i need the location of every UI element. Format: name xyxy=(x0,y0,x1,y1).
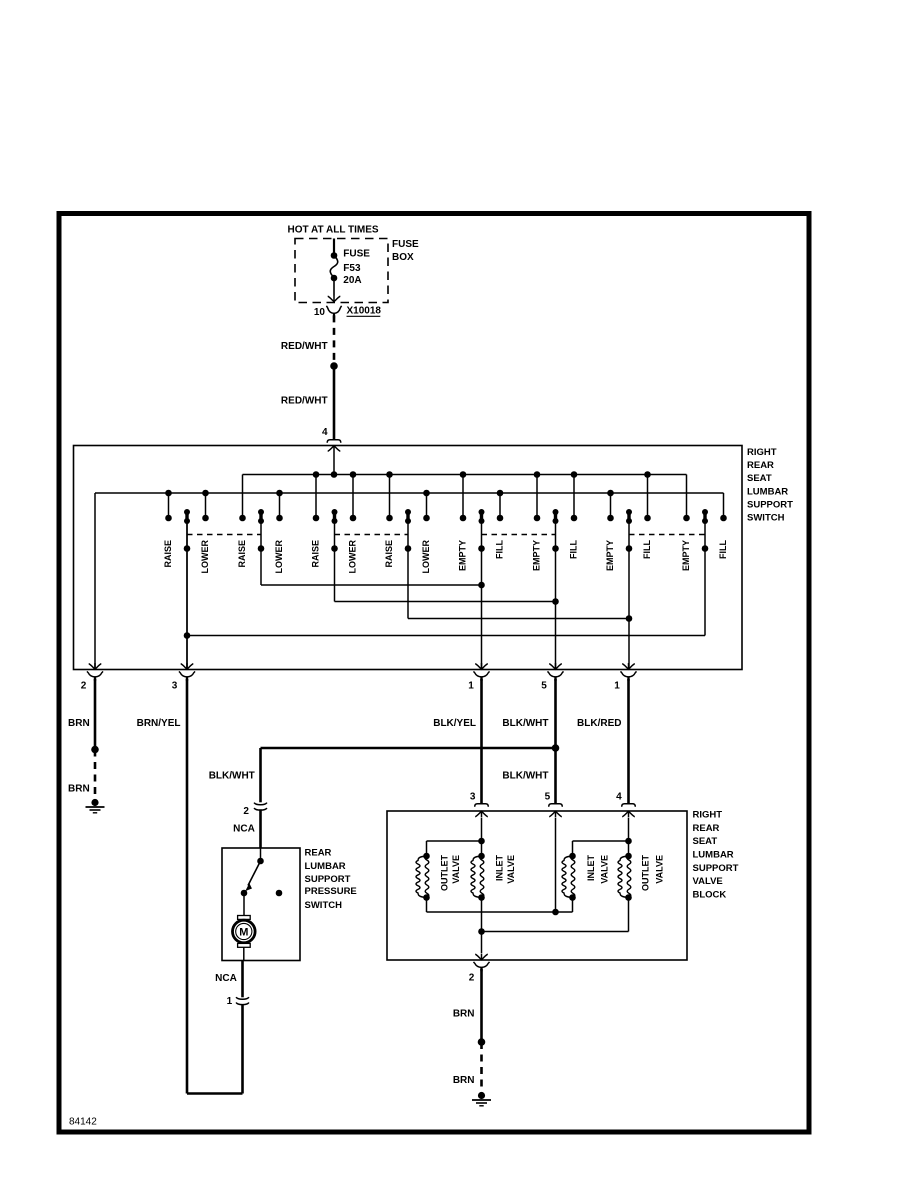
svg-text:PRESSURE: PRESSURE xyxy=(305,886,357,897)
fuse F53 20A xyxy=(330,248,370,295)
svg-text:FILL: FILL xyxy=(569,540,579,559)
switch contact FILL (group 6R) xyxy=(569,471,579,559)
svg-text:EMPTY: EMPTY xyxy=(532,540,542,571)
svg-text:2: 2 xyxy=(243,806,249,817)
wire BRN dashed to ground xyxy=(68,750,95,800)
switch pole 1 xyxy=(184,509,191,670)
switch exit pin 1 xyxy=(468,663,489,692)
svg-text:2: 2 xyxy=(81,681,87,692)
svg-text:SUPPORT: SUPPORT xyxy=(693,863,739,874)
bus to pin 2 (lower) xyxy=(95,493,724,670)
pole 1 exit line with junction xyxy=(184,521,191,670)
svg-text:FILL: FILL xyxy=(642,540,652,559)
outer border frame xyxy=(59,214,809,1133)
switch pole 7 xyxy=(626,509,633,670)
svg-text:BRN: BRN xyxy=(68,718,90,729)
switch contact LOWER (group 3R) xyxy=(348,471,358,573)
svg-text:1: 1 xyxy=(227,996,233,1007)
wire RED/WHT (dashed, unnamed splice above) xyxy=(281,315,334,364)
svg-text:RAISE: RAISE xyxy=(163,540,173,568)
svg-text:RAISE: RAISE xyxy=(384,540,394,568)
link pin4 to inlet valve 3 top xyxy=(573,841,629,856)
switch contact FILL (group 7R) xyxy=(642,471,652,559)
splice to pressure switch xyxy=(552,744,560,752)
pressure switch contact & blade xyxy=(241,848,264,896)
svg-text:84142: 84142 xyxy=(69,1117,97,1128)
fuse box (dashed) xyxy=(295,239,419,303)
inlet valve coil 2 xyxy=(471,853,516,901)
switch pole 6 xyxy=(552,509,559,670)
switch contact LOWER (group 2R) xyxy=(274,490,284,574)
svg-text:BLOCK: BLOCK xyxy=(693,889,727,900)
switch pole 2 xyxy=(258,509,482,585)
outlet valve coil 4 xyxy=(618,853,664,901)
switch contact RAISE (group 2L) xyxy=(237,475,247,568)
switch pole 5 xyxy=(478,509,485,670)
mechanical linkage (dashed) xyxy=(629,534,705,536)
wire BRN from pin 2 xyxy=(68,679,95,750)
svg-text:VALVE: VALVE xyxy=(693,876,723,887)
svg-text:SWITCH: SWITCH xyxy=(305,900,343,911)
wire BLK/WHT branch to pressure switch xyxy=(209,748,556,802)
valve pin 5 entry arrow + wire xyxy=(549,811,562,915)
svg-text:VALVE: VALVE xyxy=(654,855,664,884)
svg-text:BRN: BRN xyxy=(68,783,90,794)
svg-text:INLET: INLET xyxy=(586,854,596,881)
svg-text:SUPPORT: SUPPORT xyxy=(305,874,351,885)
pressure switch pin 2 connector NCA xyxy=(233,803,267,848)
motor M xyxy=(233,893,256,961)
svg-text:BLK/WHT: BLK/WHT xyxy=(502,771,548,782)
valve pin 3 connector xyxy=(470,792,488,807)
wire BLK/WHT xyxy=(502,679,555,748)
common return inside valve block xyxy=(478,898,628,935)
svg-text:HOT AT ALL TIMES: HOT AT ALL TIMES xyxy=(288,225,379,236)
switch pole 3 xyxy=(331,509,555,602)
svg-text:EMPTY: EMPTY xyxy=(458,540,468,571)
label HOT AT ALL TIMES xyxy=(288,225,379,236)
svg-text:LUMBAR: LUMBAR xyxy=(305,861,346,872)
svg-text:RAISE: RAISE xyxy=(237,540,247,568)
svg-text:OUTLET: OUTLET xyxy=(439,855,449,891)
svg-text:10: 10 xyxy=(314,307,326,318)
switch contact EMPTY (group 5L) xyxy=(458,471,468,571)
svg-text:BRN: BRN xyxy=(453,1075,475,1086)
svg-text:VALVE: VALVE xyxy=(451,855,461,884)
wire BRN dashed to ground xyxy=(453,1042,482,1092)
valve pin 5 connector xyxy=(545,792,563,807)
svg-text:RED/WHT: RED/WHT xyxy=(281,396,328,407)
mechanical linkage (dashed) xyxy=(335,534,409,536)
svg-text:4: 4 xyxy=(616,792,622,803)
rear lumbar support pressure switch box xyxy=(222,848,357,961)
wire BLK/WHT lower xyxy=(502,748,555,803)
switch contact EMPTY (group 8L) xyxy=(681,475,691,572)
svg-text:BRN: BRN xyxy=(453,1008,475,1019)
switch contact RAISE (group 4L) xyxy=(384,471,394,567)
valve pin 3 entry arrow + wire xyxy=(475,811,488,856)
svg-text:BLK/YEL: BLK/YEL xyxy=(433,718,476,729)
svg-text:BLK/WHT: BLK/WHT xyxy=(209,771,255,782)
svg-text:INLET: INLET xyxy=(494,854,504,881)
svg-text:BRN/YEL: BRN/YEL xyxy=(137,718,181,729)
svg-text:FILL: FILL xyxy=(495,540,505,559)
right rear seat lumbar support valve block box xyxy=(387,810,739,960)
switch contact RAISE (group 3L) xyxy=(311,471,321,567)
branch to outlet valve 1 xyxy=(427,841,482,856)
valve pin 4 entry arrow + wire xyxy=(622,811,635,856)
svg-text:EMPTY: EMPTY xyxy=(605,540,615,571)
wire BRN/YEL pin 3 to pressure switch pin 1 xyxy=(137,679,243,1094)
svg-text:BLK/RED: BLK/RED xyxy=(577,718,621,729)
switch contact LOWER (group 4R) xyxy=(421,490,431,574)
splice node xyxy=(91,746,99,754)
svg-text:RIGHT: RIGHT xyxy=(693,810,723,821)
pressure switch NC contact xyxy=(276,890,283,897)
ground (left) xyxy=(86,799,105,813)
mechanical linkage (dashed) xyxy=(187,534,261,536)
wire BRN from valve block xyxy=(453,969,482,1042)
svg-text:REAR: REAR xyxy=(747,460,774,471)
ground (bottom) xyxy=(472,1092,491,1106)
svg-text:3: 3 xyxy=(172,681,178,692)
svg-text:SUPPORT: SUPPORT xyxy=(747,500,793,511)
switch exit pin 3 xyxy=(172,663,195,692)
splice node xyxy=(330,362,338,370)
wire RED/WHT (solid) xyxy=(281,366,334,440)
svg-text:BLK/WHT: BLK/WHT xyxy=(502,718,548,729)
svg-text:VALVE: VALVE xyxy=(506,855,516,884)
diagram number 84142 xyxy=(69,1117,97,1128)
switch exit pin 5 xyxy=(541,663,563,692)
svg-text:3: 3 xyxy=(470,792,476,803)
outlet valve coil 1 xyxy=(416,853,461,901)
svg-text:LUMBAR: LUMBAR xyxy=(693,850,734,861)
svg-text:SEAT: SEAT xyxy=(747,473,772,484)
svg-text:1: 1 xyxy=(614,681,620,692)
pressure switch pin 1 connector NCA xyxy=(215,961,249,1008)
svg-text:NCA: NCA xyxy=(233,824,255,835)
svg-text:LOWER: LOWER xyxy=(421,540,431,574)
svg-text:M: M xyxy=(239,927,248,939)
svg-text:1: 1 xyxy=(468,681,474,692)
svg-text:REAR: REAR xyxy=(305,848,332,859)
wire BLK/YEL xyxy=(433,679,481,803)
connector X10018 pin 10 xyxy=(314,306,382,319)
svg-text:SWITCH: SWITCH xyxy=(747,513,785,524)
svg-text:F53: F53 xyxy=(343,263,361,274)
svg-text:BOX: BOX xyxy=(392,252,414,263)
inlet valve coil 3 xyxy=(562,853,609,901)
svg-text:RIGHT: RIGHT xyxy=(747,447,777,458)
svg-text:EMPTY: EMPTY xyxy=(681,540,691,571)
switch pole 8 xyxy=(187,509,708,636)
svg-text:4: 4 xyxy=(322,427,328,438)
svg-text:OUTLET: OUTLET xyxy=(641,855,651,891)
mechanical linkage (dashed) xyxy=(482,534,556,536)
svg-text:RED/WHT: RED/WHT xyxy=(281,341,328,352)
right rear seat lumbar support switch box xyxy=(74,446,794,670)
splice node xyxy=(478,1038,486,1046)
svg-text:VALVE: VALVE xyxy=(599,855,609,884)
svg-text:X10018: X10018 xyxy=(347,306,382,317)
svg-text:LOWER: LOWER xyxy=(274,540,284,574)
valve pin 2 exit xyxy=(469,932,490,984)
wire BLK/RED xyxy=(577,679,628,803)
pin 4 entry arrow xyxy=(328,446,341,478)
outlet1/inlet3 bottom link xyxy=(427,898,573,913)
svg-text:LOWER: LOWER xyxy=(200,540,210,574)
svg-text:5: 5 xyxy=(541,681,547,692)
switch exit pin 1 xyxy=(614,663,636,692)
svg-text:SEAT: SEAT xyxy=(693,836,718,847)
switch contact EMPTY (group 7L) xyxy=(605,490,615,571)
svg-text:FUSE: FUSE xyxy=(392,239,419,250)
svg-text:2: 2 xyxy=(469,972,475,983)
switch contact LOWER (group 1R) xyxy=(200,490,210,574)
svg-text:NCA: NCA xyxy=(215,973,237,984)
switch pin 4 connector xyxy=(322,427,341,443)
switch contact RAISE (group 1L) xyxy=(163,490,173,568)
svg-text:LUMBAR: LUMBAR xyxy=(747,486,788,497)
switch contact FILL (group 8R) xyxy=(718,493,728,559)
valve pin 4 connector xyxy=(616,792,635,807)
switch pole 4 xyxy=(405,509,629,619)
arrow at fuse box bottom xyxy=(328,296,341,302)
svg-text:FILL: FILL xyxy=(718,540,728,559)
svg-text:5: 5 xyxy=(545,792,551,803)
switch exit pin 2 xyxy=(81,663,103,692)
svg-text:RAISE: RAISE xyxy=(311,540,321,568)
svg-text:20A: 20A xyxy=(343,275,361,286)
svg-text:FUSE: FUSE xyxy=(343,248,370,259)
wire into fuse xyxy=(333,239,335,256)
svg-text:REAR: REAR xyxy=(693,823,720,834)
switch contact EMPTY (group 6L) xyxy=(532,471,542,571)
svg-text:LOWER: LOWER xyxy=(348,540,358,574)
switch contact FILL (group 5R) xyxy=(495,490,505,559)
bus from pin 4 (upper) xyxy=(243,474,687,476)
